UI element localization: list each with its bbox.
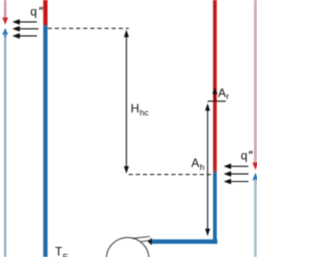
wire left-wall cold segment (pale steel-blue vertical line, far left)	[4, 34, 6, 38]
arrow A_r up (black, on red bar)	[212, 87, 217, 101]
pipe right riser hot (red right bar)	[213, 0, 217, 170]
pipe left riser cold (blue, left bar)	[43, 27, 47, 257]
svg-text:r: r	[226, 91, 229, 101]
arrow q'' left #2	[12, 26, 38, 32]
pipe right downcomer cold (blue right bar)	[213, 173, 217, 244]
node right-wall down arrow (red arrowhead)	[252, 162, 258, 170]
pump tangent line lower	[140, 240, 150, 241]
pipe right riser transition	[213, 170, 217, 173]
wire left-wall hot segment (pale rose vertical line, far left top)	[4, 0, 6, 18]
svg-text:q: q	[30, 4, 37, 18]
svg-text:H: H	[131, 102, 140, 116]
wire datum dashed lower	[129, 174, 213, 176]
node right-wall up arrow (blue arrowhead)	[252, 173, 258, 181]
wire right-wall hot segment (pale rose, far right top)	[254, 0, 257, 163]
dimension right vertical double arrow (riser length)	[205, 103, 210, 236]
dimension H_hc vertical double arrow	[124, 30, 129, 174]
arrow q'' left #3	[12, 33, 37, 39]
svg-text:h: h	[200, 162, 205, 172]
node left-wall down arrow (red arrowhead)	[2, 17, 8, 24]
pipe left riser hot (red top of left bar)	[43, 0, 47, 24]
node left-wall up arrow (blue arrowhead)	[2, 28, 8, 35]
svg-text:E: E	[63, 252, 69, 257]
node A_r tick line	[208, 100, 226, 102]
pipe bottom horizontal (blue)	[151, 239, 217, 243]
pump circle	[106, 237, 149, 257]
arrow q'' right #2	[224, 171, 249, 177]
pipe left riser transition (red to blue)	[43, 24, 47, 27]
svg-text:A: A	[218, 86, 226, 100]
svg-text:q: q	[241, 148, 248, 162]
node pipe inlet arrowhead (black, at left end of bottom pipe)	[148, 238, 152, 245]
pump tangent line upper	[132, 236, 150, 238]
svg-text:hc: hc	[140, 107, 150, 117]
arrow q'' right #1	[224, 164, 249, 170]
wire datum dashed upper	[48, 27, 129, 29]
arrow q'' left #1	[12, 19, 37, 25]
wire right-wall cold segment (pale steel-blue, far right)	[254, 180, 257, 257]
arrow q'' right #3	[224, 179, 249, 185]
svg-text:A: A	[191, 156, 199, 170]
